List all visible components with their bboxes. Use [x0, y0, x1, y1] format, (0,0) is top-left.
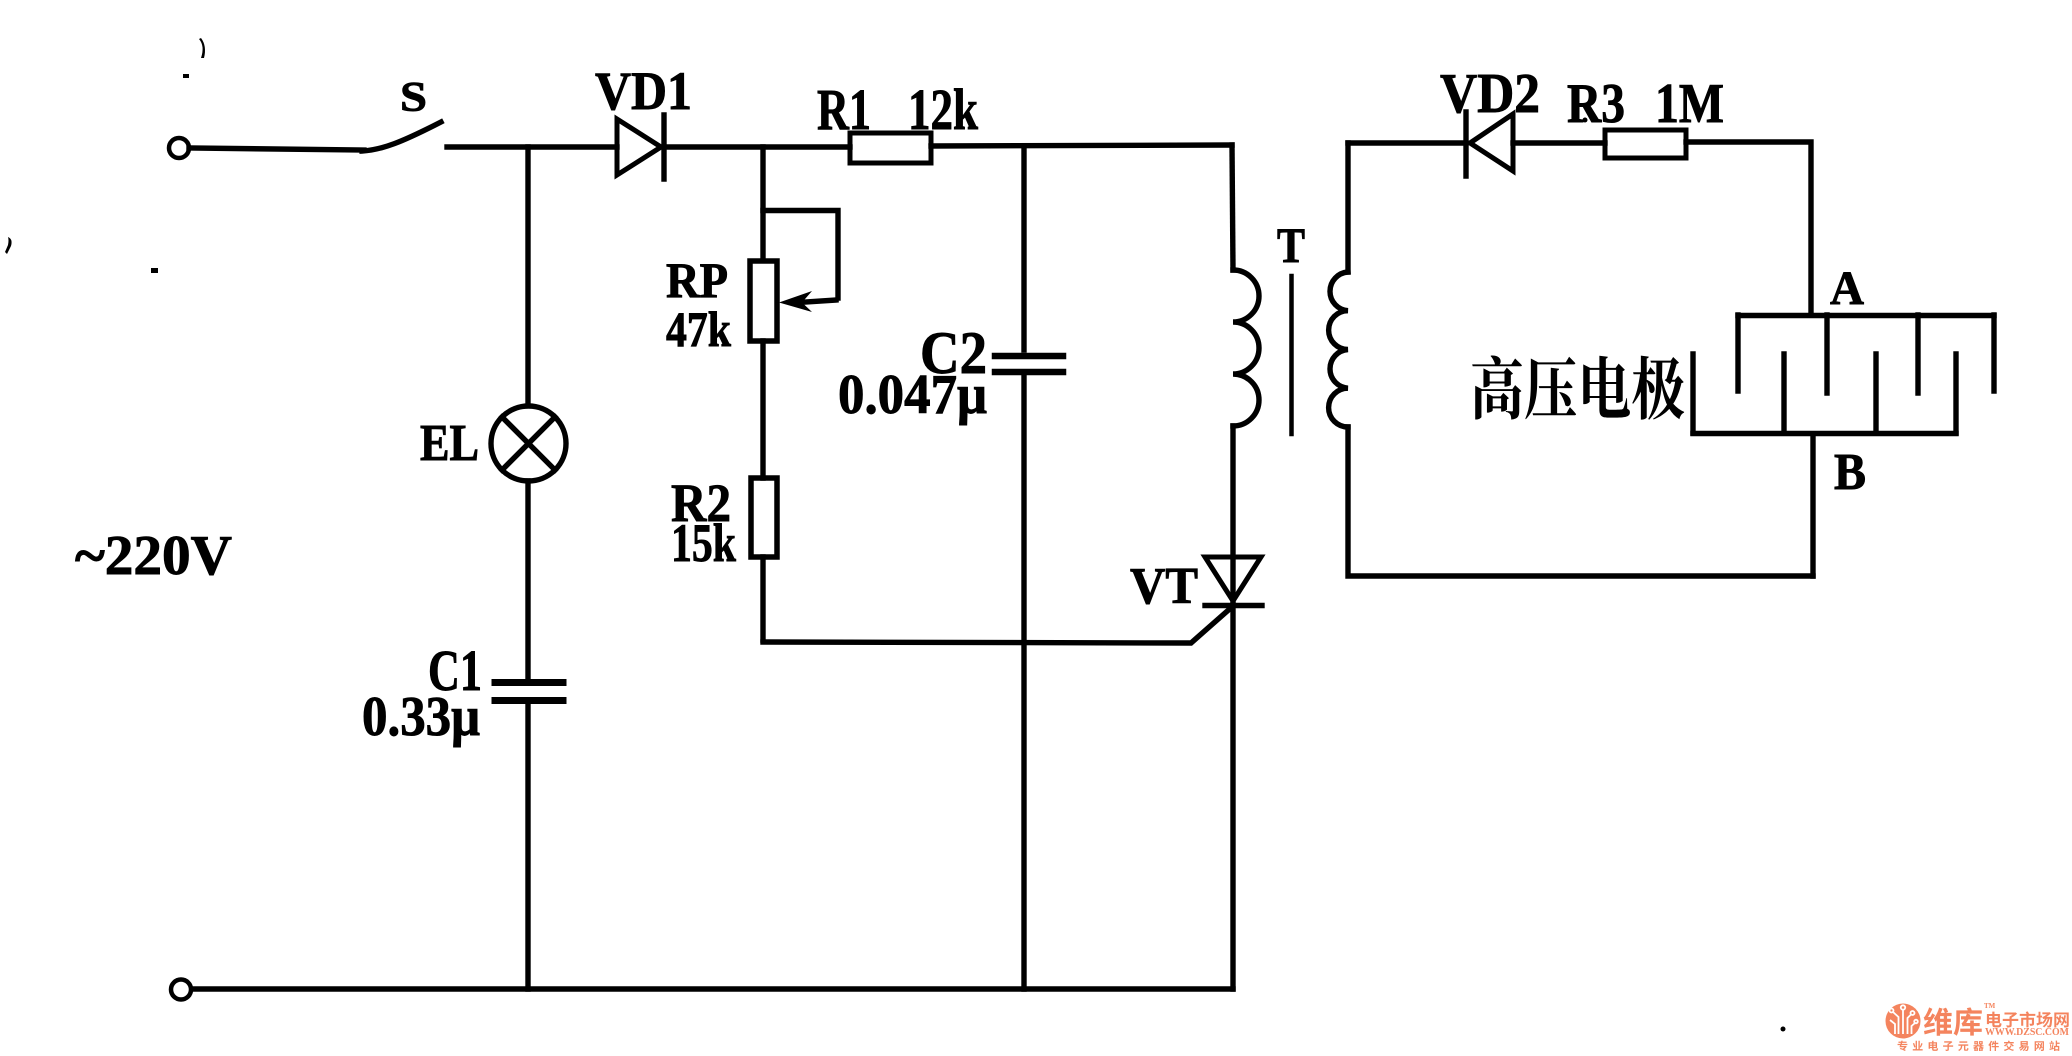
svg-text:R1: R1 [817, 77, 871, 142]
svg-text:RP: RP [666, 252, 728, 308]
svg-text:VT: VT [1130, 558, 1198, 615]
svg-text:VD1: VD1 [595, 61, 692, 121]
svg-text:12k: 12k [908, 77, 979, 142]
svg-text:0.33μ: 0.33μ [362, 686, 480, 748]
svg-text:R3: R3 [1567, 73, 1625, 135]
svg-text:EL: EL [420, 415, 479, 472]
svg-text:TM: TM [1984, 1002, 1996, 1010]
svg-text:~220V: ~220V [75, 525, 232, 587]
svg-text:0.047μ: 0.047μ [838, 364, 987, 426]
svg-text:A: A [1830, 262, 1864, 315]
svg-text:47k: 47k [666, 301, 731, 357]
svg-text:15k: 15k [671, 513, 736, 573]
svg-text:WWW.DZSC.COM: WWW.DZSC.COM [1985, 1027, 2069, 1038]
svg-text:S: S [400, 75, 427, 121]
svg-text:T: T [1277, 217, 1305, 273]
svg-text:1M: 1M [1655, 73, 1724, 135]
svg-text:VD2: VD2 [1440, 63, 1540, 125]
svg-text:B: B [1834, 444, 1866, 501]
